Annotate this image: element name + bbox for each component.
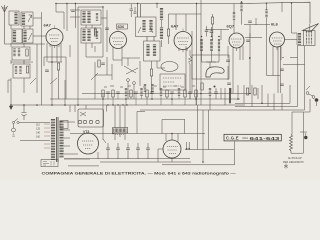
wire bottom bus y150	[185, 149, 234, 151]
capacitor C4c	[45, 70, 49, 72]
node dot B	[249, 57, 251, 59]
voltage selector box	[41, 160, 58, 167]
component strip: resistor R15	[166, 90, 168, 97]
field coil winding	[299, 33, 301, 45]
svg-text:160: 160	[36, 136, 41, 139]
component strip: resistor R16	[184, 90, 186, 97]
wire V4 V5 drops	[233, 49, 281, 94]
wire transformer secondary leads	[64, 122, 90, 159]
wire left column verticals	[11, 25, 37, 93]
coil L7 winding b	[88, 12, 90, 24]
coil L7 winding c	[96, 13, 98, 21]
coil L2 winding	[23, 14, 25, 26]
tube V1 pins	[50, 45, 59, 49]
resistor R19	[254, 88, 256, 95]
coil L3 winding	[14, 31, 16, 43]
resistor R7	[233, 12, 235, 20]
wire V7 leads	[158, 134, 189, 163]
capacitor C8	[226, 60, 230, 62]
filter cap labels	[115, 134, 124, 136]
dial lamp box	[78, 109, 104, 127]
pickup crystal	[304, 136, 307, 139]
band switch contacts	[163, 78, 181, 86]
svg-text:110: 110	[36, 124, 40, 127]
switch contact circle a	[127, 79, 130, 82]
resistor R6	[211, 17, 213, 24]
resistor R9 zigzag	[189, 56, 192, 64]
power transformer primary winding	[51, 119, 55, 160]
resistor R22 hatched	[218, 39, 220, 51]
resistor R10	[201, 83, 203, 90]
wire bottom bus y163	[68, 141, 235, 166]
wire bus top B+	[56, 2, 310, 23]
wire screen feed	[266, 4, 268, 76]
capacitor C17d	[210, 31, 214, 33]
tube V4 internals	[231, 39, 242, 45]
dial lamp 1	[78, 120, 81, 123]
wire jack down	[292, 99, 317, 135]
label 6D6 box	[117, 24, 128, 29]
output transformer laminations	[307, 31, 312, 45]
wire line y133.5	[70, 133, 205, 135]
resistor R21 hatched	[210, 39, 213, 51]
dial lamp switch lever	[80, 112, 86, 116]
wire L5-L6 link	[11, 26, 33, 62]
wire pickup leads	[206, 46, 231, 94]
coil L1 box	[9, 11, 19, 25]
component strip: capacitor C17	[188, 92, 192, 94]
primary tap arrows	[44, 124, 50, 148]
wire IF1 feeds	[138, 4, 155, 41]
coil L5 winding a	[14, 49, 16, 57]
wire filter cap leads	[103, 105, 145, 140]
rectifier tube V6	[78, 133, 99, 154]
component strip: capacitor C15	[150, 92, 154, 94]
tube V1 internals	[49, 25, 60, 42]
output transformer box	[304, 31, 316, 46]
mains switch	[12, 121, 14, 123]
jack lever	[306, 86, 313, 96]
component strip: resistor R12	[112, 90, 114, 97]
coil L2 box	[21, 12, 33, 26]
trimmer C5c	[91, 73, 98, 80]
capacitor C11	[280, 84, 284, 86]
svg-text:641-643: 641-643	[250, 136, 281, 141]
wire main bus y105	[10, 104, 245, 106]
capacitor C7	[246, 40, 250, 42]
IF T1 winding a	[143, 20, 145, 32]
wire V1 socket area	[44, 45, 70, 99]
IF T2 winding a	[147, 45, 149, 57]
wire padder area	[70, 4, 80, 29]
wire osc grid coupling	[86, 43, 112, 99]
resistor R4	[94, 29, 96, 36]
capacitor C3	[71, 10, 75, 12]
wire V7 grid feed	[162, 120, 185, 134]
component strip: capacitor C13	[116, 92, 120, 94]
resistor R1	[26, 49, 28, 56]
coil L8 box	[81, 28, 101, 43]
switch contact circle b	[133, 82, 136, 85]
coil L8 winding b	[88, 30, 90, 42]
choke row capacitor C19	[106, 148, 110, 150]
coil choke strip b	[152, 84, 154, 92]
coil L7 winding a	[83, 12, 85, 24]
tube V5 internals	[272, 38, 283, 44]
component strip: resistor R11	[102, 90, 104, 97]
wire mains	[14, 123, 51, 141]
wire switch area	[113, 46, 140, 99]
wire bus line y99	[50, 98, 240, 100]
resistor R5	[167, 29, 169, 36]
svg-text:6D6: 6D6	[118, 25, 125, 29]
ellipse dial	[161, 62, 178, 72]
tube V6 internals	[82, 141, 94, 149]
svg-text:C.G.E: C.G.E	[226, 136, 239, 141]
svg-text:125: 125	[36, 128, 41, 131]
IF transformer T2 box	[144, 41, 161, 61]
fuse	[12, 132, 15, 137]
component strip: coil choke b	[141, 88, 143, 96]
tube V3 internals	[177, 28, 189, 45]
wire det section	[206, 14, 229, 40]
power transformer core	[57, 117, 59, 162]
wire bottom of RF section	[5, 43, 46, 45]
wire bus line y93.5	[82, 93, 250, 95]
component strip: capacitor C16	[170, 92, 174, 94]
wire choke row drops	[98, 139, 148, 159]
trimmer C4	[50, 78, 57, 84]
coil L4 box	[23, 29, 34, 43]
resistor R8 vertical on line	[266, 10, 268, 18]
wire antenna down-lead	[4, 12, 6, 44]
component strip: resistor R14	[146, 90, 148, 97]
node dots det	[201, 36, 220, 38]
antenna	[2, 5, 8, 12]
wire osc section	[52, 57, 66, 105]
wire R9b leads	[152, 61, 166, 94]
component strip: coil choke c	[160, 88, 162, 96]
wire speaker return runs	[282, 46, 305, 110]
tube V3 6B7	[174, 32, 192, 50]
jack blob	[315, 98, 319, 102]
capacitor C10	[280, 69, 284, 71]
tube V5 6L6	[270, 32, 285, 47]
wire coupling to V5	[244, 18, 270, 46]
node dots bus	[10, 93, 263, 163]
wire mid verticals	[186, 46, 197, 105]
tube V7	[163, 140, 181, 158]
coil L6 box	[13, 64, 30, 78]
component strip: resistor R13	[130, 90, 132, 97]
filter capacitor block	[113, 128, 128, 133]
wire bus line y110	[140, 109, 305, 111]
component strip: resistor R17	[195, 90, 197, 97]
dial lamp 3	[89, 120, 92, 123]
box band switch	[160, 74, 185, 90]
coil L10 winding	[161, 28, 163, 40]
component strip: capacitor C12	[106, 92, 110, 94]
CGE label box	[224, 134, 281, 141]
wire output transformer leads	[282, 2, 304, 46]
wire osc coil links	[78, 7, 107, 105]
resistor R8a on plate line	[240, 2, 242, 12]
resistor R2	[26, 66, 28, 73]
IF T1 trimmers	[138, 27, 153, 33]
voltage selector marks	[43, 161, 54, 166]
wire R8a down	[241, 12, 243, 25]
wire risers x197 x203 x210	[198, 105, 209, 162]
switch diagonal b	[126, 68, 138, 74]
right terminal strip verticals	[238, 85, 282, 110]
dial lamp 4	[96, 120, 99, 123]
switch diagonal a	[124, 66, 136, 73]
component strip: coil choke d	[178, 88, 180, 96]
wire heater risers	[65, 80, 86, 112]
wire extra strip drops	[202, 26, 226, 110]
resistor R9b	[150, 69, 152, 76]
coil L6 winding b	[20, 66, 22, 74]
trimmer C4b	[30, 78, 36, 84]
tube V1 6A7	[46, 29, 63, 46]
coil L1 winding	[15, 13, 17, 25]
phono box outline	[192, 55, 229, 79]
coil L9 winding	[161, 8, 163, 20]
phono jack circles	[306, 92, 309, 95]
capacitor C17b	[214, 92, 218, 94]
choke row capacitor C22	[136, 148, 140, 150]
tube V5 pins	[273, 47, 281, 51]
capacitor C6	[248, 21, 252, 23]
wire bottom bus y159	[64, 158, 190, 160]
choke row capacitor C23	[146, 148, 150, 150]
wire right side L-runs	[243, 46, 281, 94]
ground star	[284, 164, 288, 169]
tube V2 6D6	[110, 32, 127, 49]
resistor R20 hatched	[200, 39, 203, 51]
dial lamp 2	[83, 120, 86, 123]
wire grid cap to tube V1	[33, 12, 46, 105]
power transformer secondary winding	[59, 121, 63, 158]
svg-text:Mod: Mod	[243, 136, 249, 140]
trimmer C1	[28, 15, 32, 22]
component strip: coil choke a	[125, 88, 127, 96]
svg-text:140: 140	[36, 132, 41, 135]
wire V3 plate riser	[186, 0, 201, 105]
resistor R3	[57, 63, 59, 70]
ground arrow	[9, 93, 12, 110]
capacitor C9	[227, 83, 231, 85]
wire bus line y103.3	[235, 85, 290, 103]
component strip tiny labels	[104, 86, 195, 87]
wire AVC left	[8, 80, 11, 93]
tube V4 6Q7	[229, 33, 244, 48]
capacitor C5	[105, 28, 109, 30]
pickup arm	[206, 67, 224, 77]
svg-text:6Q7: 6Q7	[227, 24, 235, 29]
electrolytic C18	[22, 105, 27, 120]
svg-text:COMPAGNIA GENERALE DI ELETTRIC: COMPAGNIA GENERALE DI ELETTRICITA. — Mod…	[42, 171, 237, 175]
wire IF2 to V3	[157, 4, 201, 48]
capacitor C5b	[101, 63, 105, 65]
coil L8 winding c	[96, 31, 98, 39]
plug terminal	[12, 128, 16, 132]
coil L4 winding	[24, 31, 26, 43]
node dots top bus	[55, 1, 292, 7]
coil L3 box	[12, 29, 22, 43]
IF1 trimmer caps above	[130, 4, 137, 17]
wire V1 cathode drops	[44, 43, 66, 62]
wire pickup unit	[291, 132, 307, 153]
IF T1 winding b	[150, 20, 152, 32]
pickup resistor zigzag	[290, 135, 293, 154]
svg-text:AL PICK-UP: AL PICK-UP	[288, 157, 302, 160]
speaker frame lines	[305, 24, 316, 31]
component strip: capacitor C14	[134, 92, 138, 94]
choke row capacitor C21	[126, 148, 130, 150]
tube V3 pins	[179, 49, 187, 53]
tube V2 internals	[112, 29, 124, 45]
coil L7 box	[81, 10, 101, 25]
IF transformer T1 box	[136, 17, 157, 37]
choke row capacitor C20	[116, 148, 120, 150]
node dot A	[214, 86, 216, 88]
fuse box	[60, 121, 68, 129]
coil L8 winding a	[83, 30, 85, 42]
svg-text:6A7: 6A7	[44, 23, 52, 28]
svg-text:6L6: 6L6	[271, 22, 279, 27]
trimmer C2	[29, 33, 33, 40]
svg-text:PER GIRADISCHI: PER GIRADISCHI	[283, 161, 304, 164]
coil L5 winding b	[18, 49, 20, 57]
resistor R17b	[229, 88, 231, 103]
capacitor C17c	[205, 30, 209, 32]
wire component strip drops	[103, 93, 196, 105]
tube V7 internals	[167, 147, 178, 154]
wire V1 top to B+	[56, 4, 67, 32]
coil choke strip a	[144, 84, 146, 92]
svg-text:6A7: 6A7	[171, 24, 179, 29]
wire bus line y106.6	[235, 106, 298, 108]
wire R7 leads	[233, 4, 235, 34]
coil L5 box	[12, 47, 30, 60]
resistor R4b	[98, 60, 100, 67]
tube V4 pins	[233, 48, 240, 52]
IF T2 winding b	[154, 45, 156, 57]
coil choke e	[209, 88, 211, 96]
coil L6 winding a	[15, 66, 17, 74]
speaker cone	[302, 24, 318, 32]
resistor R18	[246, 88, 248, 95]
node dot V1 cathode	[51, 61, 53, 63]
